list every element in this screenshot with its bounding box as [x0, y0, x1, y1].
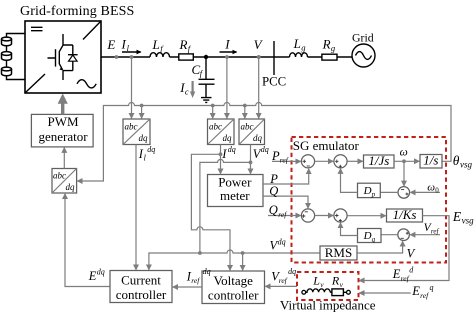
wire V measurement tap — [257, 55, 261, 118]
summing junction S3 — [301, 209, 314, 222]
wire omega to W0 junction — [403, 161, 405, 186]
summing junction S4 — [334, 209, 347, 222]
label Eref d — [392, 266, 415, 283]
block 1/Ks — [387, 207, 423, 222]
wire Q output — [263, 184, 308, 208]
inductor Lg — [290, 36, 308, 57]
wire theta to block2 — [211, 104, 215, 119]
svg-text:ref: ref — [279, 276, 288, 285]
svg-text:E: E — [88, 269, 97, 283]
current arrow Ic — [179, 80, 195, 98]
svg-text:meter: meter — [220, 188, 250, 203]
wire I measurement tap — [225, 55, 229, 118]
block abc-dq 2 — [208, 119, 235, 145]
block 1/Js — [364, 153, 395, 168]
svg-text:L: L — [312, 274, 320, 288]
svg-text:c: c — [185, 87, 189, 97]
current arrow I — [220, 36, 237, 52]
terminal node right — [347, 290, 351, 294]
svg-text:L: L — [293, 36, 301, 51]
svg-text:SG emulator: SG emulator — [293, 138, 360, 153]
capacitor Cf — [192, 57, 215, 97]
svg-text:dq: dq — [253, 133, 263, 143]
inverter U1 — [25, 21, 101, 93]
svg-text:l: l — [144, 153, 147, 162]
svg-text:v: v — [320, 280, 324, 289]
svg-text:q: q — [430, 283, 434, 292]
inductor Lv — [306, 274, 331, 293]
resistor Rg — [322, 36, 337, 60]
svg-text:D: D — [363, 185, 372, 197]
wire Ildq to current controller — [135, 145, 137, 270]
wire omega0 input — [410, 182, 440, 195]
wire Idq to power meter — [219, 145, 223, 174]
svg-text:dq: dq — [147, 145, 155, 154]
svg-text:Grid-forming BESS: Grid-forming BESS — [20, 4, 134, 19]
svg-text:q: q — [372, 236, 376, 244]
svg-text:dq: dq — [288, 267, 296, 276]
source Grid G1 — [352, 30, 375, 67]
svg-text:PWM: PWM — [47, 114, 79, 129]
block Current controller — [110, 271, 172, 303]
wire Evsg to Eref d — [359, 209, 474, 281]
wire Il measurement tap — [130, 55, 134, 118]
block Dp — [358, 183, 381, 198]
wire Iref dq — [173, 267, 211, 287]
terminal node left — [302, 290, 306, 294]
svg-text:Virtual impedance: Virtual impedance — [280, 298, 376, 313]
svg-text:ref: ref — [401, 274, 410, 283]
arrow PWM to inverter — [58, 93, 68, 114]
svg-text:abc: abc — [209, 122, 222, 132]
block dq-abc — [52, 169, 77, 194]
svg-text:R: R — [331, 274, 340, 288]
block abc-dq 1 — [123, 119, 150, 145]
svg-text:PCC: PCC — [262, 74, 286, 88]
node Cf junction — [204, 55, 208, 59]
wire W0 to Dp — [380, 191, 398, 193]
summing junction W0 — [398, 187, 410, 199]
block abc-dq 3 — [239, 119, 265, 145]
svg-text:E: E — [392, 267, 401, 281]
svg-text:controller: controller — [208, 287, 259, 302]
block PWM generator — [31, 114, 93, 147]
summing junction VR — [398, 229, 410, 241]
current arrow Il — [121, 36, 141, 53]
svg-text:θ: θ — [453, 153, 460, 168]
svg-text:f: f — [160, 43, 164, 53]
svg-text:abc: abc — [53, 171, 66, 181]
ground — [201, 98, 212, 103]
wire Pref input — [271, 149, 301, 165]
svg-text:ref: ref — [278, 210, 287, 219]
svg-text:R: R — [179, 37, 188, 52]
svg-text:V: V — [407, 247, 416, 261]
box Virtual impedance — [280, 272, 376, 313]
svg-text:I: I — [224, 36, 230, 51]
wire S1 to S2 — [315, 160, 334, 162]
block Power meter — [208, 174, 264, 206]
svg-text:abc: abc — [241, 122, 254, 132]
box SG emulator — [292, 137, 447, 263]
svg-text:Power: Power — [218, 174, 252, 189]
svg-text:V: V — [254, 37, 264, 52]
svg-text:dq: dq — [203, 267, 211, 276]
svg-text:controller: controller — [116, 287, 167, 302]
svg-text:Current: Current — [121, 272, 161, 287]
svg-text:D: D — [363, 230, 372, 242]
wire P output — [263, 169, 309, 186]
svg-text:f: f — [188, 43, 192, 53]
wire S2 to 1/Js — [347, 160, 363, 162]
wire Vdq to voltage controller — [242, 253, 244, 270]
svg-text:ω: ω — [427, 182, 435, 194]
svg-text:Grid: Grid — [352, 30, 374, 44]
wire omega — [394, 146, 419, 163]
svg-text:RMS: RMS — [325, 245, 352, 260]
svg-text:ref: ref — [420, 291, 429, 300]
svg-text:vsg: vsg — [460, 159, 472, 169]
svg-text:E: E — [411, 284, 420, 298]
wire Dp to S2 — [341, 169, 358, 193]
svg-text:d: d — [409, 266, 414, 275]
svg-text:dq: dq — [97, 268, 105, 277]
wire theta to block3 — [243, 104, 247, 119]
svg-text:g: g — [331, 43, 335, 53]
resistor Rv — [330, 274, 346, 296]
svg-text:p: p — [371, 190, 376, 198]
wire dqabc to PWM — [63, 148, 65, 169]
svg-text:0: 0 — [435, 187, 439, 195]
svg-text:I: I — [121, 36, 127, 51]
summing junction S2 — [334, 155, 347, 168]
wire Eref q input — [359, 283, 433, 300]
svg-text:ref: ref — [431, 227, 440, 235]
svg-text:ω: ω — [400, 146, 408, 158]
svg-text:Q: Q — [269, 203, 278, 217]
label V dq — [253, 145, 269, 161]
block RMS — [320, 245, 357, 260]
svg-text:L: L — [152, 37, 160, 52]
battery B1 — [2, 34, 26, 80]
wire Idq to voltage controller — [191, 154, 230, 270]
node V — [254, 37, 264, 59]
svg-text:vsg: vsg — [462, 215, 474, 225]
wire S4 to 1/Ks — [347, 215, 386, 217]
svg-text:E: E — [452, 209, 462, 224]
svg-text:E: E — [106, 37, 115, 52]
svg-text:Q: Q — [269, 184, 278, 198]
wire Vdq to power meter — [249, 145, 253, 174]
block 1/s — [420, 153, 442, 168]
svg-text:1/s: 1/s — [423, 153, 438, 168]
svg-text:1/Js: 1/Js — [368, 153, 389, 168]
label Il dq — [138, 145, 156, 163]
svg-text:dq: dq — [261, 145, 269, 154]
wire AC main line — [101, 56, 352, 58]
svg-text:Voltage: Voltage — [213, 273, 253, 288]
wire S3 to S4 — [315, 215, 334, 217]
svg-text:R: R — [322, 36, 331, 51]
inductor Lf — [150, 37, 170, 57]
wire Qref input — [268, 203, 301, 219]
block Dq — [358, 229, 382, 244]
wire Dq to S4 — [341, 223, 358, 236]
resistor Rf — [179, 37, 194, 60]
svg-text:1/Ks: 1/Ks — [393, 207, 417, 222]
svg-text:f: f — [200, 68, 204, 78]
label I dq — [221, 145, 235, 161]
svg-text:v: v — [340, 280, 344, 289]
wire Edq feedback — [65, 194, 110, 287]
svg-text:generator: generator — [38, 129, 88, 144]
summing junction S1 — [301, 155, 314, 168]
wire Vdq bus — [149, 238, 320, 270]
svg-text:dq: dq — [139, 133, 149, 143]
wire VR to Dq — [381, 234, 398, 236]
svg-text:dq: dq — [223, 133, 233, 143]
svg-text:dq: dq — [278, 238, 286, 247]
svg-text:ref: ref — [191, 276, 200, 285]
svg-text:dq: dq — [228, 145, 236, 154]
svg-text:g: g — [301, 42, 305, 52]
wire Vref dq — [265, 267, 297, 287]
svg-text:ref: ref — [280, 156, 289, 165]
svg-text:dq: dq — [66, 182, 76, 192]
wire Vdq branch — [200, 159, 251, 253]
node E — [106, 37, 118, 59]
wire RMS to VR junction — [357, 241, 416, 260]
svg-text:abc: abc — [125, 122, 138, 132]
bus PCC — [262, 41, 286, 88]
svg-text:P: P — [271, 149, 280, 163]
wire theta to block1 — [140, 104, 144, 119]
wire Vref input — [410, 222, 440, 235]
label theta_vsg — [453, 153, 473, 170]
block Voltage controller — [202, 271, 265, 304]
wire theta_vsg distribution — [77, 103, 451, 182]
